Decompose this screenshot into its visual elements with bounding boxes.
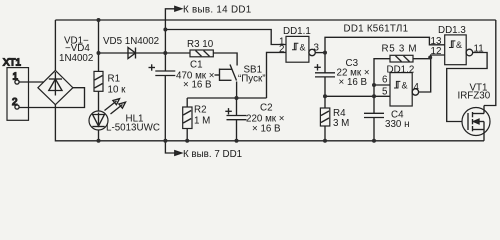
svg-text:“Пуск”: “Пуск” <box>238 74 266 85</box>
wire DD1.2 output to riser <box>419 55 445 92</box>
svg-text:2: 2 <box>279 44 284 55</box>
svg-text:× 16 В: × 16 В <box>339 77 368 88</box>
svg-text:XT1: XT1 <box>3 58 21 69</box>
svg-text:К выв. 14 DD1: К выв. 14 DD1 <box>183 5 251 16</box>
wire top horizontal to DD1.1 pin1 <box>165 30 286 45</box>
wire bridge top riser <box>54 20 56 70</box>
diode VD5 1N4002 <box>99 36 166 59</box>
capacitor C2 220u <box>225 98 285 141</box>
resistor R5 3M <box>382 44 431 63</box>
svg-text:R5 3 М: R5 3 М <box>382 44 418 55</box>
svg-text:DD1.2: DD1.2 <box>387 65 415 76</box>
svg-text:C2: C2 <box>260 103 273 114</box>
wire route output to DD1.3 pin13 <box>325 37 445 52</box>
svg-text:1N4002: 1N4002 <box>59 53 93 64</box>
svg-text:R3 10: R3 10 <box>187 39 214 50</box>
resistor R1 10k <box>94 20 126 96</box>
capacitor C4 330n <box>364 96 409 141</box>
capacitor C3 22u <box>314 53 370 97</box>
transistor VT1 IRFZ30 <box>458 83 491 141</box>
op-amp gate DD1.2 <box>382 65 420 107</box>
capacitor C1 470u <box>149 60 215 141</box>
connector XT1 <box>3 58 29 121</box>
op-amp gate DD1.3 <box>431 25 484 65</box>
svg-text:3: 3 <box>314 43 320 54</box>
wire DD1.1 output <box>315 52 325 54</box>
wire riser to pin6 <box>374 85 390 96</box>
svg-text:12: 12 <box>431 46 442 57</box>
svg-text:IRFZ30: IRFZ30 <box>458 91 491 102</box>
op-amp gate DD1.1 <box>279 26 320 62</box>
svg-text:DD1 К561ТЛ1: DD1 К561ТЛ1 <box>344 24 409 35</box>
pushbutton SB1 "Пуск" <box>215 65 266 99</box>
svg-text:3 М: 3 М <box>333 118 349 129</box>
svg-text:6: 6 <box>382 75 388 86</box>
LED HL1 <box>89 91 160 141</box>
svg-text:&: & <box>300 43 306 53</box>
svg-text:× 16 В: × 16 В <box>183 80 212 91</box>
svg-text:&: & <box>456 40 462 50</box>
svg-text:VD5 1N4002: VD5 1N4002 <box>103 36 159 47</box>
wire node Y to DD1.2 pin5 <box>325 95 390 97</box>
svg-text:2: 2 <box>12 97 17 108</box>
svg-text:330 н: 330 н <box>385 119 409 130</box>
wire XT1 pin2 to bridge right vertex <box>19 88 84 108</box>
wire bottom ground rail <box>55 105 484 141</box>
svg-text:C1: C1 <box>190 60 203 71</box>
wire tap to pin 14 DD1 (arrow) <box>165 5 251 30</box>
wire R5 left riser <box>374 59 390 85</box>
svg-text:× 16 В: × 16 В <box>252 124 281 135</box>
svg-text:10 к: 10 к <box>108 85 127 96</box>
svg-text:К выв. 7 DD1: К выв. 7 DD1 <box>183 149 242 160</box>
svg-text:&: & <box>402 81 408 91</box>
svg-text:DD1.3: DD1.3 <box>438 25 466 36</box>
wire node SB1/C2/R2 horizontal <box>187 97 266 99</box>
svg-text:5: 5 <box>382 87 388 98</box>
wire C1 node vertical <box>164 30 166 72</box>
svg-text:DD1.1: DD1.1 <box>283 26 311 37</box>
wire XT1 pin1 to bridge <box>19 81 44 83</box>
resistor R3 10 <box>165 39 213 57</box>
resistor R2 1M <box>183 98 211 141</box>
resistor R4 3M <box>320 96 349 141</box>
wire to DD1.1 pin2 <box>267 52 287 98</box>
wire top supply rail <box>55 19 495 21</box>
wire right edge drain feed <box>484 20 496 106</box>
svg-text:1 М: 1 М <box>194 116 210 127</box>
svg-text:L-5013UWC: L-5013UWC <box>106 123 160 134</box>
wire tap to pin 7 DD1 (arrow) <box>165 141 242 160</box>
svg-text:R2: R2 <box>194 105 207 116</box>
svg-text:1: 1 <box>13 72 18 83</box>
wire R3 to SB1 <box>213 53 237 66</box>
bridge rectifier VD1-VD4 <box>38 70 73 104</box>
svg-text:R1: R1 <box>108 74 121 85</box>
wire DD1.3 output to VT1 gate <box>447 53 487 122</box>
